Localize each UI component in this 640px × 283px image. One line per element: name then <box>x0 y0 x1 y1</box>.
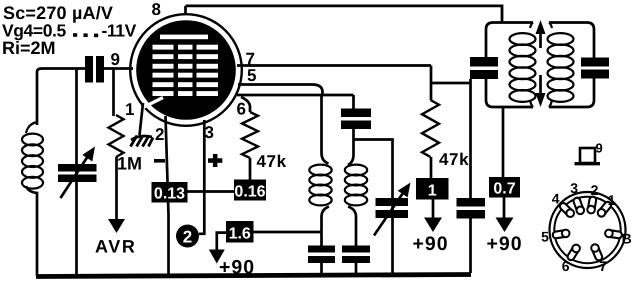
svg-text:B: B <box>622 230 632 246</box>
resistor R3 47k <box>422 100 439 157</box>
pin 6 stub <box>241 97 250 112</box>
inductor L1 antenna coil stem top <box>26 122 37 133</box>
svg-text:-11V: -11V <box>102 21 137 41</box>
capacitor C5 T2 left <box>470 57 498 67</box>
inductor T2 secondary <box>549 23 552 29</box>
wire pin 5 <box>238 85 323 96</box>
svg-text:8: 8 <box>152 0 161 19</box>
capacitor C1 grid coupling <box>85 56 93 83</box>
pin 3 wire <box>199 120 204 234</box>
svg-text:+90: +90 <box>413 233 449 255</box>
arrow +90 under box 1 <box>432 200 435 220</box>
wire branch to C5 <box>431 82 471 85</box>
svg-text:0.16: 0.16 <box>234 184 265 201</box>
socket pin 4 slot <box>563 206 570 212</box>
wire pin 7 <box>237 64 431 67</box>
svg-text:2: 2 <box>183 228 192 247</box>
tube socket inner circle <box>554 197 620 263</box>
svg-text:1M: 1M <box>117 154 142 174</box>
wire stub to R1 <box>112 69 115 117</box>
variable capacitor CV1 arrow <box>61 156 89 198</box>
plus sign <box>208 158 222 163</box>
svg-text:3: 3 <box>570 180 578 196</box>
T2 secondary box <box>549 23 594 108</box>
node circle 2 <box>176 225 199 248</box>
socket pin 3 slot <box>577 201 580 210</box>
svg-text:4: 4 <box>552 190 560 206</box>
wire to T1 primary top <box>322 96 329 164</box>
wire top rail <box>186 6 503 23</box>
top cap symbol <box>580 148 595 163</box>
svg-text:1: 1 <box>125 100 134 119</box>
measurement box 1 <box>416 178 449 200</box>
resistor R2 47k <box>242 112 258 158</box>
arrow +90 under box 0.7 <box>503 198 506 219</box>
svg-text:9: 9 <box>111 50 120 69</box>
tube socket outer circle <box>550 192 626 268</box>
capacitor C6 detector <box>457 198 486 207</box>
tube U1 grid dashes <box>153 45 219 96</box>
socket pin 2 slot <box>591 200 593 209</box>
variable capacitor CV1 plates <box>58 164 97 172</box>
wire R2 to 0.16 <box>249 158 252 180</box>
socket pin B slot <box>610 234 619 235</box>
svg-text:1: 1 <box>428 183 437 200</box>
tube U1 anode bar <box>160 35 208 40</box>
svg-text:2: 2 <box>155 125 164 144</box>
wire T1 to trimmer CV2 <box>354 140 393 275</box>
svg-text:Ri=2M: Ri=2M <box>2 38 56 58</box>
svg-text:AVR: AVR <box>95 237 136 257</box>
capacitor C4 T1 bottom right <box>342 246 370 253</box>
capacitor C3 T1 bottom left <box>308 246 335 253</box>
measurement box 0.7 <box>489 177 520 198</box>
socket pin 6 slot <box>571 249 576 257</box>
svg-text:1.6: 1.6 <box>229 226 251 243</box>
svg-text:7: 7 <box>599 258 607 274</box>
T2 tuning arrow up <box>539 34 542 48</box>
svg-text:47k: 47k <box>439 150 469 169</box>
measurement box 1.6 <box>217 233 226 250</box>
inductor L1 antenna coil <box>22 134 43 146</box>
measurement box 0.16 <box>234 180 266 201</box>
tube U1 cathode slash <box>141 98 163 109</box>
svg-text:+90: +90 <box>487 233 523 255</box>
wire grid input y68 left <box>37 69 85 126</box>
svg-text:0.7: 0.7 <box>493 181 515 198</box>
svg-text:6: 6 <box>237 100 246 119</box>
wire pin7 corner down <box>430 66 433 101</box>
svg-text:47k: 47k <box>257 152 287 171</box>
svg-text:3: 3 <box>205 123 214 142</box>
pin 8 stub <box>184 6 187 15</box>
svg-text:2: 2 <box>591 182 599 198</box>
wire 1.6 to T1 <box>254 231 322 234</box>
measurement box 0.13 <box>152 182 188 203</box>
svg-text:0.13: 0.13 <box>154 186 185 203</box>
inductor L1 stem bottom <box>26 186 37 276</box>
socket pin 7 slot <box>595 249 599 257</box>
T2 tuning arrow down <box>539 75 542 93</box>
pin 1 stub <box>140 103 144 135</box>
trimmer CV2 arrow <box>374 193 403 236</box>
svg-text:6: 6 <box>562 258 570 274</box>
svg-text:9: 9 <box>596 141 603 156</box>
svg-text:5: 5 <box>541 229 549 245</box>
wire T2 to 0.7 <box>502 107 505 177</box>
inductor T1 secondary <box>345 165 367 176</box>
wire C2 to T1 secondary top <box>348 129 354 165</box>
svg-text:1: 1 <box>608 192 616 208</box>
trimmer CV2 plates <box>376 198 409 206</box>
wire C5 node down <box>469 79 472 198</box>
resistor R1 1M <box>109 115 124 157</box>
pin 2 wire <box>166 116 169 274</box>
socket pin 5 slot <box>556 234 565 235</box>
AVR arrow wire <box>115 157 118 221</box>
inductor T1 primary <box>309 165 331 176</box>
wire junction to C2 <box>352 95 355 109</box>
wire variable cap branch <box>75 69 78 277</box>
svg-text:5: 5 <box>247 66 256 85</box>
tube U1 envelope outer circle <box>130 14 242 126</box>
capacitor C2 T1 top <box>341 109 371 118</box>
socket pin 1 slot <box>602 205 608 212</box>
chassis ground pin 1 <box>131 136 154 147</box>
wire 0.13 to 0.16 <box>188 190 235 193</box>
ground bus bottom <box>36 275 471 277</box>
wire pin 4 return <box>237 94 354 97</box>
T2 primary box <box>486 23 533 108</box>
inductor T2 primary <box>530 23 533 29</box>
wire C1 to tube pin 9 <box>104 67 133 70</box>
tube U1 black disc <box>136 20 236 120</box>
capacitor C7 T2 right <box>581 58 609 67</box>
minus sign <box>154 159 165 163</box>
